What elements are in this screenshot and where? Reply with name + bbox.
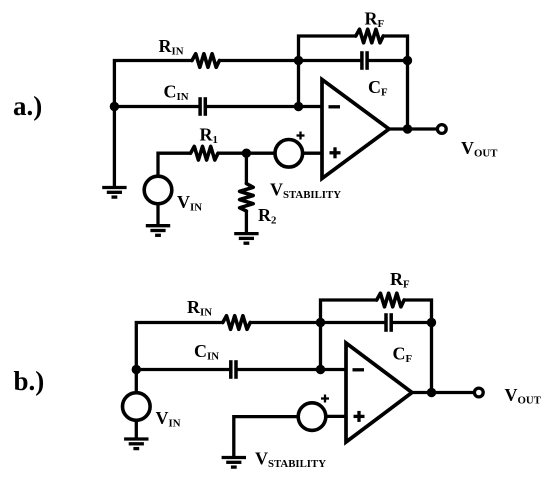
node J8: [316, 318, 325, 327]
svg-text:CIN: CIN: [164, 82, 189, 104]
ground G1 (left rail): [102, 188, 126, 198]
capacitor CIN: [200, 97, 205, 116]
capacitor CF: [362, 51, 367, 70]
wire VSTABILITY-b to non-inverting input: [326, 415, 346, 418]
ground G3 (R2): [234, 234, 258, 244]
wire RIN-b right lead: [250, 321, 320, 324]
ground G2 (VIN a): [146, 226, 170, 236]
wire left vertical + RIN left lead: [114, 61, 192, 188]
wire CIN-b right lead to inverting input: [236, 368, 346, 371]
resistor R2: [240, 184, 254, 211]
node J7: [132, 365, 141, 374]
svg-text:VIN: VIN: [156, 408, 181, 430]
wire feedback-left vertical b + RF-b left lead: [321, 300, 377, 370]
node J11: [427, 388, 436, 397]
wire CF right lead: [367, 59, 407, 62]
wire CF-b left lead: [321, 321, 387, 324]
terminal VOUT b: [474, 388, 483, 397]
wire VIN-b vertical + RIN-b left lead: [136, 323, 223, 392]
svg-text:VSTABILITY: VSTABILITY: [255, 449, 326, 471]
svg-text:a.): a.): [13, 91, 42, 121]
vsource VIN b: [123, 393, 151, 421]
wire VIN vertical + R1 left lead: [158, 153, 191, 174]
wire R2 bottom lead: [245, 211, 248, 234]
terminal VOUT a: [437, 125, 446, 134]
resistor RIN: [192, 54, 219, 68]
node J1: [294, 56, 303, 65]
capacitor CIN b: [231, 360, 236, 379]
wire output b: [412, 391, 473, 394]
resistor RF b: [377, 293, 404, 307]
wire RF right lead + feedback-right vertical: [383, 36, 407, 129]
node J10: [316, 365, 325, 374]
svg-text:R2: R2: [258, 205, 276, 227]
ground G4 (VIN b): [124, 439, 148, 449]
wire R2 top lead: [245, 153, 248, 183]
node J6: [403, 124, 412, 133]
wire output: [389, 127, 436, 130]
svg-text:R1: R1: [200, 125, 218, 147]
ground G5 (VSTABILITY b): [222, 458, 246, 468]
svg-text:RIN: RIN: [187, 297, 212, 319]
node J9: [427, 318, 436, 327]
wire feedback-left vertical + RF top-left lead: [299, 36, 356, 107]
svg-text:VOUT: VOUT: [461, 138, 498, 160]
svg-text:VOUT: VOUT: [505, 385, 542, 407]
wire CF-b right lead: [391, 321, 431, 324]
op-amp U2: [346, 343, 412, 442]
wire R1 right lead: [218, 152, 275, 155]
resistor RIN b: [223, 316, 250, 330]
op-amp U1: [322, 80, 389, 179]
wire CIN-b left lead: [136, 368, 231, 371]
wire RF-b right lead + feedback-right vertical b: [404, 300, 431, 393]
capacitor CF b: [386, 313, 391, 332]
node J4: [294, 102, 303, 111]
svg-text:CF: CF: [368, 77, 388, 99]
vsource VSTABILITY a: [275, 132, 305, 168]
wire CIN left lead: [114, 105, 200, 108]
node J5: [242, 149, 251, 158]
node J3: [110, 102, 119, 111]
svg-text:CIN: CIN: [194, 341, 219, 363]
svg-text:CF: CF: [393, 344, 413, 366]
svg-text:VSTABILITY: VSTABILITY: [270, 179, 341, 201]
svg-text:VIN: VIN: [177, 192, 202, 214]
wire to non-inverting input: [303, 152, 322, 155]
vsource VIN a: [144, 176, 172, 204]
svg-text:RF: RF: [390, 269, 410, 291]
wire VIN to ground: [156, 205, 159, 225]
wire CF left lead: [299, 59, 362, 62]
wire CIN right lead to inverting input: [205, 105, 322, 108]
node J2: [403, 56, 412, 65]
resistor R1: [191, 146, 218, 160]
wire RIN right lead: [219, 59, 298, 62]
svg-text:RIN: RIN: [159, 36, 184, 58]
resistor RF: [356, 29, 383, 43]
vsource VSTABILITY b: [298, 395, 329, 431]
wire VSTABILITY-b left lead to ground: [234, 417, 298, 458]
wire VIN-b to ground: [135, 422, 138, 439]
svg-text:b.): b.): [14, 366, 45, 396]
svg-text:RF: RF: [365, 9, 385, 31]
